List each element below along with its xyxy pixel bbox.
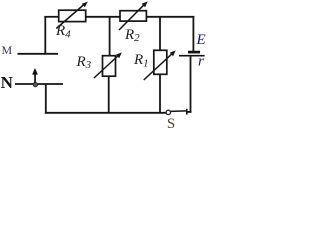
- wire R1 branch bottom: [159, 74, 161, 113]
- switch S blade: [171, 110, 186, 113]
- resistor R1 box: [154, 50, 167, 74]
- wire top rail right segment: [146, 16, 194, 18]
- resistor R3 box: [103, 56, 116, 76]
- resistor R2 box: [120, 11, 146, 21]
- wire top rail left segment: [44, 16, 59, 18]
- wire R3 branch top: [109, 16, 111, 56]
- wire bottom rail: [45, 112, 166, 114]
- svg-text:M: M: [2, 43, 13, 57]
- wire R1 branch top: [159, 16, 161, 50]
- svg-text:r: r: [198, 54, 204, 70]
- wire top rail middle segment: [86, 16, 121, 18]
- resistor R4 box: [59, 10, 86, 21]
- wire N line to bottom rail vertical: [45, 84, 47, 114]
- wire bottom rail right stub: [186, 111, 191, 113]
- wire left vertical (top rail to M line): [44, 16, 46, 55]
- switch S terminal tick: [186, 109, 188, 115]
- wire battery branch upper vertical: [192, 16, 194, 51]
- resistor R3 arrow: [94, 52, 122, 78]
- battery negative plate (long thin): [179, 55, 205, 57]
- wire R3 branch bottom: [108, 76, 110, 113]
- resistor R4 arrow: [56, 2, 88, 29]
- svg-text:N: N: [1, 73, 14, 92]
- resistor R2 arrow: [119, 1, 148, 30]
- wire N line: [15, 83, 63, 85]
- resistor R1 arrow: [144, 50, 176, 80]
- wire M line: [18, 53, 59, 55]
- svg-text:S: S: [167, 116, 175, 129]
- arrow pointer at N contact: [32, 68, 38, 83]
- wire battery branch lower vertical: [190, 56, 192, 113]
- switch S pivot circle: [166, 110, 170, 114]
- svg-text:E: E: [196, 32, 206, 48]
- battery positive plate (short thick): [188, 51, 200, 54]
- junction dot on N line: [33, 83, 37, 87]
